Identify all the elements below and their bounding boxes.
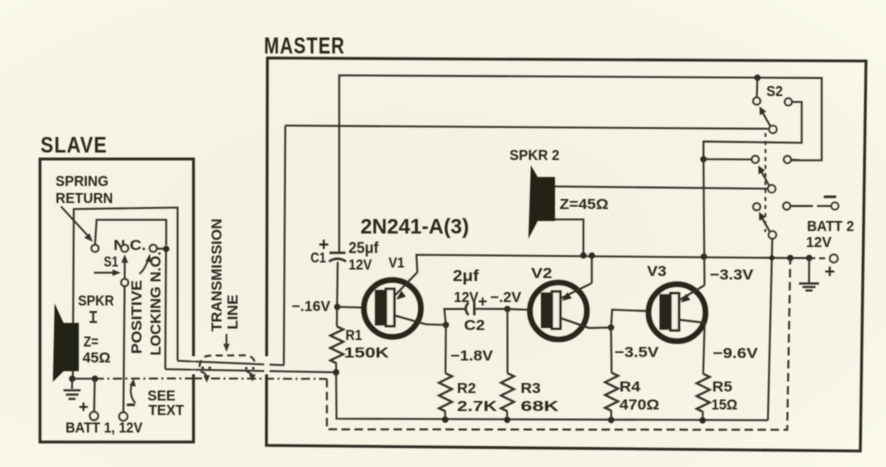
wire pole3 moving contact down to emitter bus: [768, 239, 772, 421]
spring-return pointer arrow: [61, 207, 90, 238]
wire C1 bottom to base junction and R1: [336, 262, 339, 327]
svg-text:15Ω: 15Ω: [711, 396, 737, 413]
resistor R4: [605, 373, 618, 411]
slave box right-edge gap for transmission wires: [191, 357, 196, 375]
lower transmission wire: [165, 369, 336, 372]
V2 collector wire to junction: [589, 327, 611, 330]
dashed B-minus bus in master: [327, 258, 790, 430]
svg-text:2N241-A(3): 2N241-A(3): [361, 216, 470, 239]
svg-text:12V: 12V: [806, 235, 832, 251]
S1 moving arm with arrow to N.C.: [124, 259, 126, 280]
junction rail / dashed B-minus riser: [787, 255, 793, 261]
BATT1 minus terminal: [119, 412, 127, 420]
V3 collector wire down to R5: [703, 323, 705, 374]
svg-text:2.7K: 2.7K: [457, 398, 497, 415]
S2 pole2 throw contact: [784, 156, 791, 163]
wire junction down to R2: [445, 325, 447, 373]
svg-text:MASTER: MASTER: [264, 33, 345, 59]
svg-text:V1: V1: [389, 255, 405, 272]
label minus (BATT1): [127, 403, 135, 406]
svg-text:V2: V2: [531, 265, 552, 282]
svg-text:BATT 2: BATT 2: [807, 219, 854, 235]
SEE TEXT pointer arrow: [131, 382, 136, 403]
svg-text:V3: V3: [647, 263, 667, 280]
junction base tee: [334, 304, 340, 310]
svg-text:C1: C1: [311, 250, 327, 267]
junction V3 emitter / S2 / rail: [701, 253, 707, 259]
ground (slave): [71, 379, 73, 389]
upper transmission wire: [178, 126, 286, 366]
svg-text:−.16V: −.16V: [292, 299, 331, 315]
svg-text:SPKR 2: SPKR 2: [510, 147, 560, 164]
wire R1 junction down to emitter bus: [336, 372, 768, 420]
svg-text:−3.5V: −3.5V: [615, 344, 659, 361]
junction BATT1 plus: [92, 376, 98, 382]
svg-text:−1.8V: −1.8V: [451, 349, 494, 365]
svg-text:SPRING: SPRING: [56, 173, 109, 190]
S2 pole1 throw contact: [785, 98, 792, 105]
svg-text:SPKR: SPKR: [78, 293, 114, 310]
transmission line left arrow: [201, 372, 207, 379]
label minus (BATT2): [824, 196, 836, 199]
switch S1 N.O. contact: [150, 245, 157, 252]
resistor R5: [697, 374, 710, 412]
V1 collector wire to C2/R2 junction: [426, 323, 446, 326]
speaker SPKR2: [528, 165, 538, 239]
speaker SPKR1: [53, 303, 64, 381]
S2 pole1 top contact: [756, 78, 759, 98]
junction speaker/ground: [69, 376, 75, 382]
transmission line center dash-dots: [202, 367, 215, 369]
wire junction to pole2 left contact: [704, 158, 752, 160]
SLAVE enclosure box: [40, 159, 194, 442]
svg-text:R1: R1: [346, 327, 363, 344]
junction pole2 feed: [700, 156, 706, 162]
svg-text:S1: S1: [104, 254, 119, 271]
V1 base wire: [337, 306, 364, 309]
svg-text:R3: R3: [521, 380, 541, 397]
wire to BATT1 plus terminal: [93, 379, 96, 412]
wire junction down to R3: [506, 309, 508, 373]
svg-text:+: +: [825, 262, 836, 282]
svg-text:45Ω: 45Ω: [83, 350, 111, 367]
S2 pole1 moving contact and arm: [769, 126, 777, 134]
svg-text:Z=: Z=: [84, 335, 99, 351]
svg-text:LINE: LINE: [225, 295, 242, 330]
wire pole1 throw loop to pole2 feed: [704, 102, 802, 160]
ground (BATT2): [808, 258, 810, 283]
svg-text:470Ω: 470Ω: [619, 396, 659, 413]
wire rect2: spring contact to N.O. junction: [95, 220, 166, 246]
switch S1 spring-return contact: [91, 245, 98, 252]
resistor R2: [439, 373, 452, 411]
svg-text:12V: 12V: [349, 256, 373, 273]
V2 emitter wire up to rail: [591, 256, 593, 284]
S2 pole2 moving contact and arm: [768, 185, 776, 193]
V2 base wire: [507, 308, 530, 311]
wire junction down to R4: [610, 328, 613, 373]
positive locking pointer arrow: [140, 258, 149, 274]
BATT2 plus terminal: [830, 255, 838, 263]
wire S2 junction down to V3 emitter: [704, 159, 705, 285]
svg-text:+: +: [478, 293, 487, 310]
wire junction up to C2 left plate: [444, 309, 466, 325]
svg-text:SLAVE: SLAVE: [41, 133, 108, 158]
S1 moving contact: [121, 279, 128, 286]
S1 pointer arrow: [94, 272, 116, 274]
svg-text:Z=45Ω: Z=45Ω: [560, 197, 609, 213]
wire junction down to lower transmission wire: [164, 252, 167, 369]
dash-dot B-minus bus in slave: [72, 378, 95, 380]
junction at S1 N.O.: [163, 246, 169, 252]
svg-text:TEXT: TEXT: [149, 403, 185, 419]
transistor V3: [649, 284, 706, 341]
capacitor C1: [330, 252, 346, 254]
svg-text:RETURN: RETURN: [56, 190, 114, 207]
BATT2 minus jumper: [783, 202, 790, 209]
S2 mechanical linkage (dashed): [764, 133, 766, 232]
SPKR2 top wire to S2 pole2 moving contact: [555, 186, 769, 188]
dash-dot bus between boxes: [193, 377, 327, 380]
junction R1 bottom: [333, 369, 339, 375]
emitter bus riser to S2 pole3 (right end corner): [767, 419, 769, 421]
svg-text:S2: S2: [766, 83, 783, 100]
svg-text:68K: 68K: [521, 398, 559, 415]
junction wireA / S2 pole1: [754, 75, 760, 81]
wire V2 collector junction up-right to V3 base: [611, 310, 647, 328]
capacitor C2: [466, 303, 469, 316]
S2 pole2 left contact: [752, 156, 759, 163]
svg-text:R5: R5: [712, 379, 732, 396]
svg-text:−9.6V: −9.6V: [713, 345, 758, 362]
svg-text:R2: R2: [457, 380, 476, 397]
svg-text:2μf: 2μf: [453, 268, 480, 285]
resistor R3: [501, 373, 514, 411]
svg-text:−.2V: −.2V: [490, 290, 521, 306]
SPKR2 bottom wire to rail: [555, 219, 583, 255]
svg-text:N.C.: N.C.: [114, 238, 147, 254]
svg-text:R4: R4: [619, 379, 641, 396]
junction C2 / V2 base / R3: [504, 306, 510, 312]
svg-text:12V: 12V: [454, 289, 479, 306]
transmission line shield arc (dashed): [200, 355, 256, 367]
wire pole2 throw to wireA vertical: [791, 159, 800, 161]
transistor V2: [530, 283, 592, 340]
BATT1 plus terminal: [90, 412, 98, 420]
transmission line pointer arrow: [226, 334, 228, 347]
svg-text:+: +: [79, 398, 89, 417]
junction rail / ground: [806, 255, 812, 261]
S2 pole3 moving contact and arm: [769, 231, 777, 239]
junction pole3 wire at rail: [769, 255, 774, 260]
svg-text:TRANSMISSION: TRANSMISSION: [209, 219, 226, 332]
resistor R1: [330, 326, 343, 363]
svg-text:150K: 150K: [344, 345, 389, 362]
S2 pole3 left contact: [753, 203, 760, 210]
svg-text:LOCKING N.O.: LOCKING N.O.: [148, 252, 165, 356]
transistor V1: [364, 272, 426, 337]
MASTER enclosure box: [266, 58, 866, 451]
svg-text:25μf: 25μf: [349, 240, 380, 257]
wire B: upper transmission line to S2 pole1 moving contact: [285, 126, 771, 129]
V1 emitter wire up to rail corner: [416, 255, 809, 272]
dash wire to BATT2 plus terminal: [809, 257, 828, 259]
svg-text:BATT 1, 12V: BATT 1, 12V: [66, 421, 143, 437]
svg-text:C2: C2: [464, 317, 485, 334]
switch S1 N.C. contact: [121, 245, 128, 252]
svg-text:POSITIVE: POSITIVE: [129, 280, 146, 354]
wire S1 moving contact down to BATT1 minus: [123, 286, 124, 413]
svg-text:−3.3V: −3.3V: [710, 267, 754, 284]
master box left-edge gap for transmission wires: [265, 357, 270, 375]
wire rect1: speaker top to upper transmission wire: [73, 208, 178, 379]
transmission line right arrow: [246, 372, 252, 378]
wire stub N.O. contact to junction: [157, 248, 167, 250]
wire A: C1 top feed to S2: [339, 75, 822, 252]
